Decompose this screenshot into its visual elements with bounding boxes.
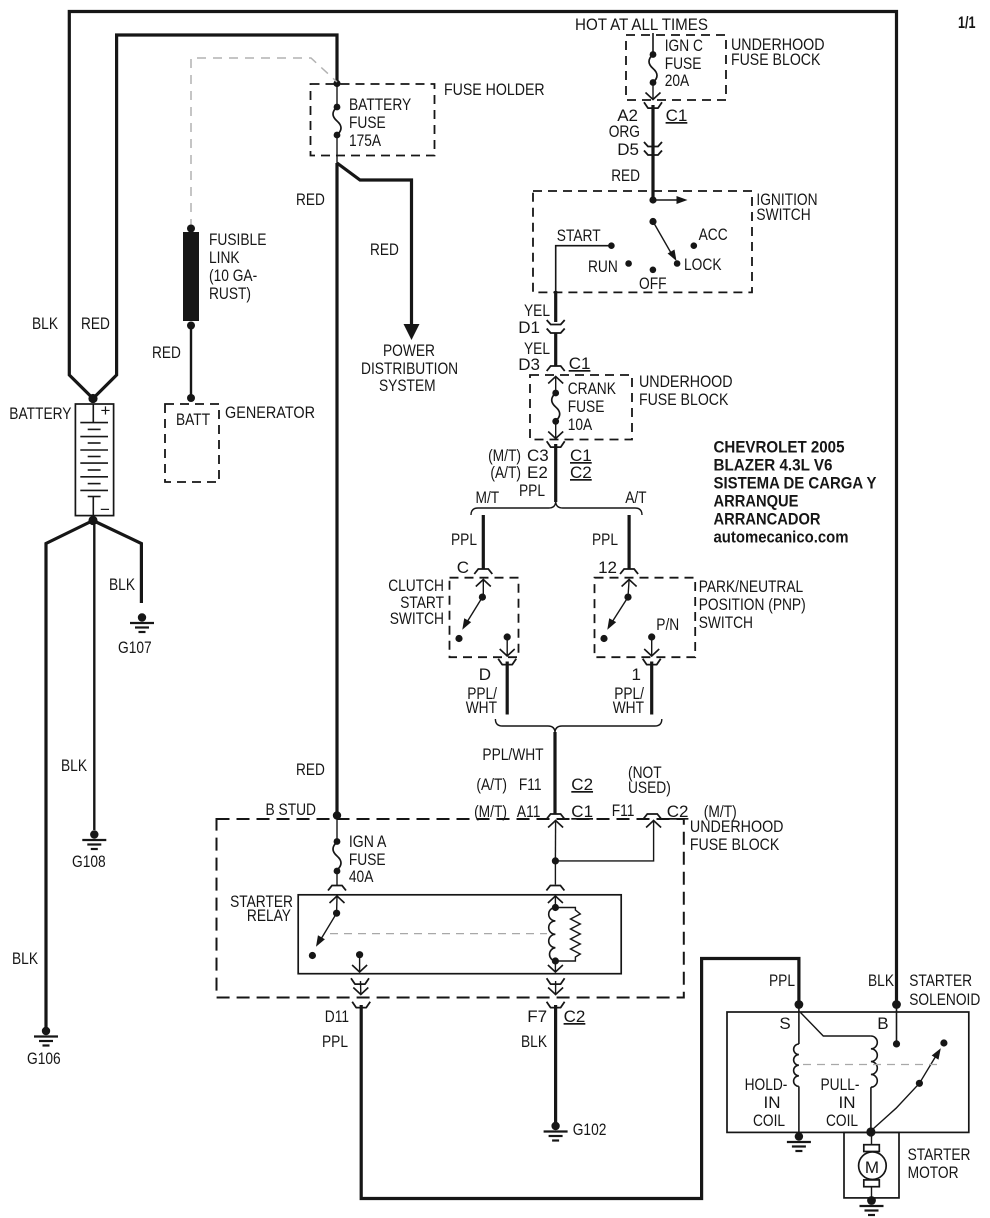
svg-text:+: + xyxy=(101,401,111,420)
svg-text:PPL/WHT: PPL/WHT xyxy=(482,745,543,764)
svg-text:PPL: PPL xyxy=(769,971,795,990)
wire: RED from fusible link to generator BATT xyxy=(152,326,195,403)
svg-text:M: M xyxy=(865,1158,879,1177)
svg-text:BLK: BLK xyxy=(12,949,39,968)
svg-text:POWER: POWER xyxy=(383,341,435,360)
solenoid contact from B xyxy=(893,1005,900,1048)
fuse: CRANK FUSE 10A xyxy=(552,379,617,434)
node: junction to F11 link xyxy=(552,821,661,865)
ground G107 xyxy=(109,575,154,657)
svg-text:G107: G107 xyxy=(118,638,152,657)
svg-text:STARTER: STARTER xyxy=(909,971,972,990)
wire: gray dashed link from fusible link to fuse holder xyxy=(191,58,337,228)
underhood fuse block box (IGN C fuse) xyxy=(626,35,825,100)
svg-text:UNDERHOOD: UNDERHOOD xyxy=(639,372,733,391)
wire: BLK from F7 to G102 xyxy=(554,1005,557,1123)
svg-text:12: 12 xyxy=(598,558,617,577)
connector A11 into fuse block xyxy=(547,814,565,861)
svg-text:PULL-: PULL- xyxy=(821,1075,860,1094)
svg-text:LINK: LINK xyxy=(209,248,240,267)
relay coil parallel resistor xyxy=(555,908,580,962)
ground at starter motor xyxy=(860,1196,884,1215)
svg-text:RUST): RUST) xyxy=(209,284,251,303)
wire: BLK label at solenoid B xyxy=(868,971,895,990)
svg-text:FUSE BLOCK: FUSE BLOCK xyxy=(639,390,729,409)
connector C2 pin F11 (NOT USED) xyxy=(612,763,737,821)
title block xyxy=(714,438,878,547)
svg-text:−: − xyxy=(100,500,110,519)
connector D11 exit of starter relay and fuse block xyxy=(322,955,370,1051)
svg-text:1: 1 xyxy=(632,665,641,684)
park/neutral position switch dashed box xyxy=(595,577,806,657)
svg-text:CHEVROLET 2005: CHEVROLET 2005 xyxy=(714,438,845,457)
battery xyxy=(9,314,113,525)
svg-text:FUSIBLE: FUSIBLE xyxy=(209,230,266,249)
svg-text:ORG: ORG xyxy=(609,122,640,141)
svg-text:175A: 175A xyxy=(349,131,382,150)
svg-text:RED: RED xyxy=(152,343,181,362)
svg-text:ARRANCADOR: ARRANCADOR xyxy=(714,510,821,529)
svg-text:(A/T): (A/T) xyxy=(490,463,521,482)
svg-text:D5: D5 xyxy=(617,140,639,159)
svg-text:BLK: BLK xyxy=(109,575,136,594)
node: solenoid B terminal xyxy=(877,1000,901,1033)
wire: PPL/WHT common to A11 xyxy=(482,732,555,814)
svg-text:F11: F11 xyxy=(519,775,542,794)
svg-text:P/N: P/N xyxy=(656,615,679,634)
svg-text:RED: RED xyxy=(81,314,110,333)
svg-text:PPL: PPL xyxy=(519,481,545,500)
svg-text:C2: C2 xyxy=(570,463,592,482)
node: HOT AT ALL TIMES feed xyxy=(575,15,708,54)
connector pin D exit of clutch start switch xyxy=(479,637,516,684)
svg-text:FUSE HOLDER: FUSE HOLDER xyxy=(444,80,545,99)
svg-text:SWITCH: SWITCH xyxy=(390,609,444,628)
connector D5 in-line xyxy=(617,140,662,159)
connector F7 exit of starter relay and fuse block xyxy=(521,961,585,1051)
svg-text:RED: RED xyxy=(296,760,325,779)
wire: branch to power distribution system xyxy=(337,163,412,326)
svg-text:BLK: BLK xyxy=(521,1032,548,1051)
svg-text:WHT: WHT xyxy=(613,698,644,717)
wire: PPL M/T branch xyxy=(451,515,483,577)
svg-text:RED: RED xyxy=(370,240,399,259)
relay coil xyxy=(549,904,559,965)
svg-text:USED): USED) xyxy=(628,778,671,797)
pull-in coil xyxy=(821,1036,878,1132)
connector into starter relay coil side left xyxy=(328,871,346,913)
wire: link from S to pull-in coil xyxy=(801,1013,871,1037)
label RED below D5 xyxy=(611,166,640,185)
svg-text:LOCK: LOCK xyxy=(684,255,722,274)
brace merging PPL/WHT wires xyxy=(495,719,661,733)
starter relay box xyxy=(230,892,621,974)
fuse: BATTERY FUSE 175A xyxy=(333,84,411,164)
svg-text:C1: C1 xyxy=(569,354,591,373)
svg-text:PPL: PPL xyxy=(592,530,618,549)
svg-text:S: S xyxy=(779,1014,790,1033)
ground G102 xyxy=(544,1120,607,1141)
svg-text:(A/T): (A/T) xyxy=(476,775,507,794)
wire: PPL from crank fuse xyxy=(554,444,557,502)
solenoid switch blade xyxy=(871,1039,948,1131)
svg-text:F11: F11 xyxy=(612,801,635,820)
svg-text:automecanico.com: automecanico.com xyxy=(714,528,849,547)
svg-text:F7: F7 xyxy=(527,1007,547,1026)
wire: ORG from C1 to ignition switch xyxy=(609,105,653,199)
svg-text:B: B xyxy=(877,1014,888,1033)
connector pin C into clutch start switch xyxy=(474,569,492,597)
svg-text:G102: G102 xyxy=(573,1120,607,1139)
svg-text:COIL: COIL xyxy=(826,1111,858,1130)
underhood fuse block large dashed box xyxy=(217,817,784,998)
mechanical link dashed in solenoid xyxy=(803,1064,938,1066)
svg-text:D1: D1 xyxy=(518,318,540,337)
wire: PPL from D11 routed along bottom to solenoid S xyxy=(361,959,799,1199)
svg-text:HOLD-: HOLD- xyxy=(745,1075,788,1094)
connector pin 1 exit of PNP switch xyxy=(632,637,661,684)
svg-text:FUSE BLOCK: FUSE BLOCK xyxy=(690,835,780,854)
brace splitting M/T and A/T xyxy=(471,488,647,515)
svg-text:FUSE: FUSE xyxy=(349,113,386,132)
fuse: IGN A FUSE 40A xyxy=(333,816,387,887)
fuse holder dashed box xyxy=(311,80,545,156)
labels (M/T) C3 C1 / (A/T) E2 C2 xyxy=(488,446,592,500)
svg-text:G106: G106 xyxy=(27,1049,61,1068)
PNP switch blade and contacts xyxy=(600,594,679,643)
svg-text:PPL: PPL xyxy=(451,530,477,549)
svg-text:BLK: BLK xyxy=(61,756,88,775)
node: solenoid S terminal xyxy=(779,1000,803,1033)
node: junction pull-in coil to starter motor xyxy=(866,1127,875,1136)
connector into starter relay coil xyxy=(546,861,564,908)
starter solenoid box xyxy=(727,971,980,1132)
arrow: to power distribution system xyxy=(361,324,458,395)
connector D1 in-line xyxy=(518,318,564,337)
svg-text:D11: D11 xyxy=(325,1007,349,1026)
svg-text:SWITCH: SWITCH xyxy=(699,613,753,632)
svg-text:ACC: ACC xyxy=(699,225,728,244)
node: junction at fuse holder input xyxy=(333,80,340,87)
mechanical link dashed in relay xyxy=(330,933,547,935)
page number 1/1 xyxy=(958,13,976,32)
svg-text:IN: IN xyxy=(839,1093,856,1112)
wire: RED main feed down to B STUD xyxy=(296,163,337,816)
connector pin 12 into PNP switch xyxy=(620,569,638,597)
svg-text:RED: RED xyxy=(296,190,325,209)
svg-text:MOTOR: MOTOR xyxy=(908,1163,959,1182)
svg-text:IGN C: IGN C xyxy=(665,36,703,55)
svg-text:M/T: M/T xyxy=(476,488,500,507)
svg-text:IN: IN xyxy=(764,1093,781,1112)
svg-text:1/1: 1/1 xyxy=(958,13,976,32)
svg-text:G108: G108 xyxy=(72,852,106,871)
svg-text:BLK: BLK xyxy=(32,314,59,333)
svg-text:HOT AT ALL TIMES: HOT AT ALL TIMES xyxy=(575,15,708,34)
wire: YEL from D1 to C1 xyxy=(524,333,556,366)
svg-text:STARTER: STARTER xyxy=(908,1145,971,1164)
wire: RED battery feed from battery + to fuse holder xyxy=(93,35,337,399)
svg-text:PPL: PPL xyxy=(322,1032,348,1051)
svg-text:BATTERY: BATTERY xyxy=(9,404,71,423)
ground G108 xyxy=(61,756,106,871)
svg-text:FUSE: FUSE xyxy=(568,397,605,416)
clutch start switch blade and contacts xyxy=(455,594,510,643)
fuse: IGN C FUSE 20A xyxy=(649,36,703,90)
svg-text:RELAY: RELAY xyxy=(247,906,291,925)
ignition switch rotor blade xyxy=(649,218,680,263)
svg-text:FUSE BLOCK: FUSE BLOCK xyxy=(731,50,821,69)
svg-text:20A: 20A xyxy=(665,71,690,90)
svg-text:10A: 10A xyxy=(568,415,593,434)
wire: PPL A/T branch xyxy=(592,515,629,577)
svg-text:D3: D3 xyxy=(518,355,540,374)
generator dashed box with BATT terminal xyxy=(165,403,315,482)
ignition switch dashed box xyxy=(533,190,818,292)
wire: battery negative legs xyxy=(46,521,141,1028)
ignition switch feed node and arrow xyxy=(649,196,687,204)
svg-text:GENERATOR: GENERATOR xyxy=(225,403,315,422)
connector C1 pin D3 into underhood fuse block xyxy=(518,354,590,393)
wire: PPL/WHT from clutch switch xyxy=(466,662,508,718)
svg-text:RUN: RUN xyxy=(588,257,618,276)
svg-text:COIL: COIL xyxy=(753,1111,785,1130)
svg-text:WHT: WHT xyxy=(466,698,497,717)
wire: from START contact out of ignition switch xyxy=(524,246,611,322)
starter relay switch blade and contacts xyxy=(309,910,363,960)
svg-text:C: C xyxy=(457,558,469,577)
ground G106 xyxy=(12,949,61,1068)
svg-text:C2: C2 xyxy=(564,1007,586,1026)
svg-text:SYSTEM: SYSTEM xyxy=(379,376,436,395)
svg-text:START: START xyxy=(557,226,601,245)
fusible link (10 GA-RUST) xyxy=(183,225,266,330)
svg-text:RED: RED xyxy=(611,166,640,185)
svg-text:B STUD: B STUD xyxy=(266,800,317,819)
svg-text:SWITCH: SWITCH xyxy=(756,205,810,224)
svg-text:BLAZER 4.3L V6: BLAZER 4.3L V6 xyxy=(714,456,833,475)
svg-text:BATT: BATT xyxy=(176,410,210,429)
svg-text:CRANK: CRANK xyxy=(568,379,617,398)
svg-text:D: D xyxy=(479,665,491,684)
svg-text:SOLENOID: SOLENOID xyxy=(909,990,980,1009)
svg-text:UNDERHOOD: UNDERHOOD xyxy=(690,817,784,836)
underhood fuse block box (CRANK fuse) xyxy=(530,372,733,440)
wire: PPL/WHT from PNP switch xyxy=(613,662,652,718)
labels (A/T) F11 C2 / (M/T) A11 C1 xyxy=(474,775,593,821)
svg-text:SISTEMA DE CARGA Y: SISTEMA DE CARGA Y xyxy=(714,474,878,493)
svg-text:BLK: BLK xyxy=(868,971,895,990)
svg-text:C1: C1 xyxy=(666,106,688,125)
hold-in coil xyxy=(745,1005,799,1133)
svg-text:ARRANQUE: ARRANQUE xyxy=(714,492,799,511)
connector exit of crank fuse box xyxy=(547,421,565,447)
svg-text:OFF: OFF xyxy=(639,274,667,293)
svg-text:POSITION (PNP): POSITION (PNP) xyxy=(699,595,806,614)
node: B STUD xyxy=(266,800,342,820)
svg-text:PARK/NEUTRAL: PARK/NEUTRAL xyxy=(699,577,804,596)
ground at hold-in coil xyxy=(787,1132,811,1151)
svg-text:E2: E2 xyxy=(527,463,548,482)
svg-text:C2: C2 xyxy=(571,775,593,794)
wire: battery positive heavy cable, battery + up left side, across top, down right side to solenoid B xyxy=(69,12,896,1005)
svg-text:A/T: A/T xyxy=(625,488,646,507)
svg-text:BATTERY: BATTERY xyxy=(349,95,411,114)
svg-text:(10 GA-: (10 GA- xyxy=(209,266,257,285)
connector C1 pin A2 exit of fuse block xyxy=(617,83,687,126)
ignition switch contacts START RUN OFF LOCK ACC xyxy=(557,225,728,293)
svg-text:IGN A: IGN A xyxy=(349,832,387,851)
svg-text:40A: 40A xyxy=(349,867,374,886)
starter motor xyxy=(844,1132,971,1198)
clutch start switch dashed box xyxy=(388,576,518,657)
